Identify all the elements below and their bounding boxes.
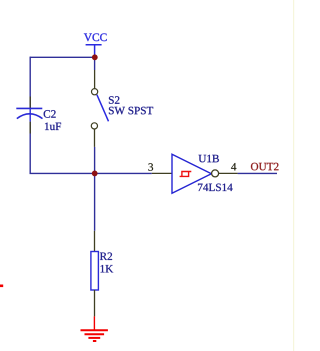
wire: switch S2 down to input node	[94, 147, 96, 174]
value 1K	[101, 265, 114, 272]
wire: input node right to inverter U1B pin 3	[95, 172, 152, 174]
wire: inverter U1B pin 4 to net OUT2	[238, 172, 277, 174]
value 1uF	[45, 123, 61, 131]
wire: left column lower segment and bottom horizontal to input node	[30, 134, 94, 174]
capacitor C2 (pins, straight plate, curved plate)	[16, 97, 42, 134]
net label OUT2	[251, 163, 279, 171]
wire: input node down to resistor R2	[94, 173, 96, 230]
designator C2	[44, 110, 56, 118]
switch S2 SPST (pins, contacts, lever)	[91, 70, 108, 147]
net label VCC	[84, 33, 107, 41]
value 74LS14	[198, 184, 233, 192]
designator S2	[109, 96, 119, 104]
wire: left column upper segment down to capacitor	[29, 57, 31, 97]
power symbol VCC (bar and stem)	[86, 45, 102, 58]
resistor R2 (pins and body)	[91, 231, 99, 317]
wire: VCC node to left column (top horizontal)	[30, 56, 94, 58]
junction dot at input node	[92, 171, 98, 177]
junction dot at VCC node	[92, 54, 98, 60]
value SW SPST	[109, 107, 153, 115]
pin number 3	[148, 163, 153, 171]
designator R2	[100, 252, 112, 259]
designator U1B	[199, 155, 219, 163]
ground	[81, 316, 108, 341]
wire: VCC node down to switch S2	[94, 57, 96, 70]
clipped ground mark at left sheet edge	[0, 285, 3, 288]
pin number 4	[231, 163, 236, 170]
inverter U1B 74LS14 (input pin, triangle, hysteresis mark, bubble, output pin)	[152, 154, 238, 193]
